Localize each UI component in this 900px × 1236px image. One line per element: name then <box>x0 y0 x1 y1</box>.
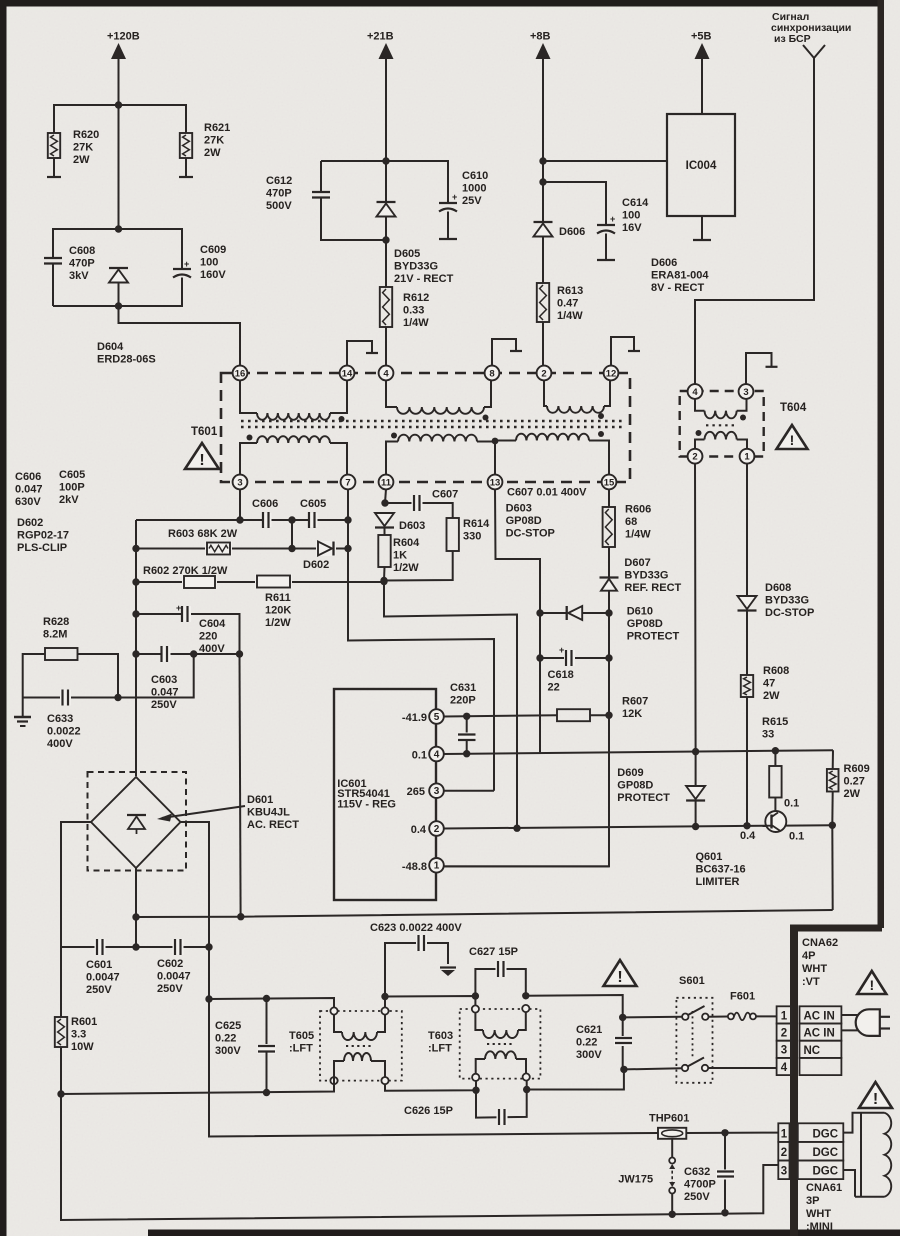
wire AC top line left segment <box>209 998 334 1008</box>
svg-text:2: 2 <box>781 1147 787 1159</box>
node +120B/R620 junction <box>115 101 122 108</box>
T601 pin 15 <box>602 475 617 490</box>
svg-text:250V: 250V <box>86 984 112 996</box>
transformer T601 dashed box <box>221 373 630 482</box>
svg-text:100P: 100P <box>59 481 85 493</box>
svg-text:0.0047: 0.0047 <box>157 970 191 982</box>
svg-text:KBU4JL: KBU4JL <box>247 806 290 818</box>
ground stub above pin 8 <box>492 339 516 366</box>
T603 upper winding <box>475 1013 483 1031</box>
T604 pin 1 <box>740 449 755 464</box>
AC plug <box>841 1014 861 1016</box>
svg-text:2: 2 <box>692 452 697 463</box>
T601 pin 4 <box>379 366 394 381</box>
T601 winding pins 3-7 <box>240 443 257 475</box>
svg-text:LIMITER: LIMITER <box>696 876 740 888</box>
T601 winding pins 4-8 <box>386 380 397 407</box>
svg-text:-48.8: -48.8 <box>402 861 427 873</box>
node D604 bottom junction <box>115 302 122 309</box>
capacitor C618 <box>540 657 609 659</box>
resistor R602 <box>182 575 217 589</box>
svg-text:115V - REG: 115V - REG <box>337 798 396 810</box>
wire R602/R611 line <box>136 581 384 583</box>
antenna input symbol <box>803 45 825 58</box>
svg-text:1/4W: 1/4W <box>403 317 429 329</box>
capacitor C632 <box>724 1133 726 1213</box>
capacitor C621 <box>614 1036 632 1046</box>
transformer T604 dashed box <box>680 391 764 457</box>
svg-text:1000: 1000 <box>462 182 486 194</box>
svg-text:+: + <box>452 192 457 202</box>
svg-text:0.4: 0.4 <box>740 830 756 842</box>
degauss coil <box>843 1113 861 1133</box>
transformer T601 core dots <box>241 420 623 422</box>
svg-text:!: ! <box>617 969 622 986</box>
IC U IC601 box <box>334 689 436 900</box>
jumper JW175 <box>671 1139 673 1158</box>
svg-text:12: 12 <box>606 368 617 379</box>
node winding junction pin13 <box>492 438 499 445</box>
svg-text:+: + <box>176 603 181 613</box>
svg-text:11: 11 <box>381 477 392 488</box>
svg-text:C606: C606 <box>15 471 41 483</box>
wire minus bus up to emitter node <box>831 825 833 910</box>
CNA62 section thick border horizontal <box>790 925 882 932</box>
wire R603/D602 line <box>136 548 348 550</box>
resistor R604 <box>384 528 386 536</box>
svg-text:GP08D: GP08D <box>617 779 653 791</box>
resistor R621 <box>180 133 192 158</box>
transformer T603 dotted box <box>460 1009 541 1079</box>
svg-text:27K: 27K <box>204 134 224 146</box>
wire D607 net vertical <box>444 613 610 866</box>
svg-text:PROTECT: PROTECT <box>627 630 680 642</box>
svg-text:3: 3 <box>781 1166 787 1178</box>
capacitor C602 <box>173 939 184 955</box>
node D605 anode junction <box>382 236 389 243</box>
svg-text:IC004: IC004 <box>686 160 717 172</box>
IC601 pin 3 <box>429 783 444 798</box>
svg-text:3: 3 <box>237 477 242 488</box>
svg-text:C626 15P: C626 15P <box>404 1105 453 1117</box>
svg-text:R613: R613 <box>557 285 583 297</box>
wire AC top line at T605 right <box>385 996 475 1008</box>
svg-text:R604: R604 <box>393 537 420 549</box>
svg-text:!: ! <box>790 432 795 448</box>
svg-text:DC-STOP: DC-STOP <box>506 527 555 539</box>
svg-text:AC IN: AC IN <box>804 1011 835 1023</box>
svg-text:220: 220 <box>199 630 217 642</box>
T601 pin 2 <box>537 366 552 381</box>
svg-text:4: 4 <box>434 749 440 760</box>
svg-text:BYD33G: BYD33G <box>394 260 438 272</box>
svg-text:15: 15 <box>604 477 615 488</box>
T601 pin 16 <box>233 366 248 381</box>
T601 pin 14 <box>340 366 355 381</box>
svg-text::MINI: :MINI <box>806 1221 833 1233</box>
T603 core dots <box>487 1043 515 1045</box>
svg-text:0.0047: 0.0047 <box>86 971 120 983</box>
warning triangle S601 <box>604 960 637 986</box>
svg-text:27K: 27K <box>73 141 93 153</box>
svg-text:250V: 250V <box>151 699 177 711</box>
connector CNA62 <box>777 1006 792 1023</box>
wire +120B branch to T601 pin16 <box>119 306 241 366</box>
resistor R611 <box>255 574 292 588</box>
IC601 pin4 line <box>444 750 834 754</box>
svg-text:D603: D603 <box>399 520 425 532</box>
wire C606/C605 line <box>239 489 241 520</box>
T604 pin 4 <box>688 384 703 399</box>
T601 pin 7 <box>341 475 356 490</box>
T604 core dots <box>706 424 735 426</box>
svg-text:!: ! <box>199 452 204 469</box>
capacitor C607 (snubber) <box>385 503 453 518</box>
svg-text:D606: D606 <box>559 226 585 238</box>
wire +120B vertical <box>118 58 120 229</box>
capacitor C610 <box>386 161 448 202</box>
ground symbol left <box>22 698 24 718</box>
capacitor C625 <box>266 999 268 1047</box>
svg-text:D608: D608 <box>765 582 791 594</box>
svg-text:250V: 250V <box>684 1191 710 1203</box>
svg-text:C612: C612 <box>266 175 292 187</box>
wire C608/C609 top line <box>53 229 182 268</box>
T601 pin 8 <box>485 366 500 381</box>
svg-text:R612: R612 <box>403 292 429 304</box>
svg-text:C607: C607 <box>432 489 458 501</box>
net +120B arrow <box>111 43 126 59</box>
T605 lower winding <box>334 1061 344 1077</box>
svg-text:0.1: 0.1 <box>789 831 804 843</box>
svg-text:BC637-16: BC637-16 <box>696 863 746 875</box>
svg-text:C601: C601 <box>86 959 112 971</box>
svg-text:10W: 10W <box>71 1041 94 1053</box>
svg-text:1: 1 <box>744 452 750 463</box>
diode D608 <box>738 596 757 609</box>
svg-text:C605: C605 <box>300 498 326 510</box>
resistor R612 <box>385 240 387 287</box>
svg-text:300V: 300V <box>576 1049 602 1061</box>
svg-text:+120B: +120B <box>107 31 140 43</box>
warning triangle degauss <box>859 1082 892 1108</box>
svg-text:DC-STOP: DC-STOP <box>765 607 814 619</box>
svg-text::LFT: :LFT <box>289 1042 313 1054</box>
svg-text:100: 100 <box>200 256 218 268</box>
svg-text:C618: C618 <box>548 669 574 681</box>
T601 pin 12 <box>604 366 619 381</box>
page border frame bottom bar <box>148 1230 900 1236</box>
wire AC bottom line left segment <box>61 1077 334 1094</box>
transistor Q601 <box>765 811 786 832</box>
diode D603 <box>375 513 394 526</box>
T605 upper winding <box>334 1015 342 1033</box>
diode D609 <box>686 786 705 799</box>
svg-text:2: 2 <box>781 1028 787 1040</box>
capacitor C608 <box>44 257 62 259</box>
svg-text:R614: R614 <box>463 518 490 530</box>
svg-text:R607: R607 <box>622 696 648 708</box>
wire bottom line to CNA61 pin3 <box>672 1165 778 1214</box>
resistor R601 <box>60 947 62 1017</box>
svg-text:PLS-CLIP: PLS-CLIP <box>17 542 67 554</box>
svg-text:+5B: +5B <box>691 31 712 43</box>
svg-text:0.27: 0.27 <box>844 775 865 787</box>
svg-text:4: 4 <box>692 387 698 398</box>
svg-text:D602: D602 <box>303 559 329 571</box>
svg-text:BYD33G: BYD33G <box>765 594 809 606</box>
svg-text:0.47: 0.47 <box>557 297 578 309</box>
warning triangle CNA62 <box>857 971 886 994</box>
svg-text:470P: 470P <box>266 187 292 199</box>
svg-text:R601: R601 <box>71 1016 97 1028</box>
CNA62 section thick border vertical <box>790 925 798 1236</box>
fuse F601 <box>709 1016 729 1018</box>
svg-text:16: 16 <box>235 368 246 379</box>
svg-text:5: 5 <box>434 712 440 723</box>
svg-text:C610: C610 <box>462 170 488 182</box>
svg-text:D602: D602 <box>17 517 43 529</box>
svg-text:3: 3 <box>781 1045 787 1057</box>
wire bridge AC right <box>181 822 659 1137</box>
svg-text:400V: 400V <box>47 738 73 750</box>
T601 pin 3 <box>233 475 248 490</box>
svg-text:0.22: 0.22 <box>576 1036 597 1048</box>
node D604 top junction <box>115 225 122 232</box>
wire +21B vertical <box>385 58 387 202</box>
svg-text:2W: 2W <box>763 690 780 702</box>
wire AC line y947 <box>61 946 209 948</box>
wire switch lower line <box>624 1068 682 1069</box>
svg-text:!: ! <box>869 977 874 993</box>
wire minus bus long <box>136 910 833 917</box>
svg-text:C632: C632 <box>684 1166 710 1178</box>
wire sync to T604 pin4 <box>695 58 814 384</box>
svg-text:!: ! <box>873 1091 878 1108</box>
svg-text:C623 0.0022 400V: C623 0.0022 400V <box>370 922 462 934</box>
T604 winding pins 2-1 <box>695 440 705 449</box>
svg-text:1/4W: 1/4W <box>625 528 651 540</box>
T604 pin3 stub <box>746 353 772 384</box>
capacitor C606 <box>263 513 272 527</box>
svg-text:D610: D610 <box>627 606 653 618</box>
svg-text:14: 14 <box>342 368 353 379</box>
svg-text:PROTECT: PROTECT <box>617 792 670 804</box>
svg-text:R609: R609 <box>844 763 870 775</box>
svg-text:500V: 500V <box>266 200 292 212</box>
capacitor C626 <box>476 1090 527 1118</box>
resistor R609 <box>832 750 834 769</box>
svg-text:C614: C614 <box>622 197 649 209</box>
switch S601 upper contact <box>682 1014 688 1020</box>
IC601 pin 5 <box>429 709 444 724</box>
svg-text:630V: 630V <box>15 496 41 508</box>
node R604/R614/R611 junction <box>380 577 387 584</box>
svg-text:R602 270K 1/2W: R602 270K 1/2W <box>143 565 228 577</box>
svg-text:+21B: +21B <box>367 31 394 43</box>
ground symbol C623 <box>440 966 456 968</box>
resistor R620 <box>48 133 60 158</box>
T604 pin 3 <box>739 384 754 399</box>
svg-text:из БСР: из БСР <box>774 33 811 45</box>
svg-text:R615: R615 <box>762 716 788 728</box>
svg-text:+: + <box>559 645 564 655</box>
page border frame top bar <box>0 0 884 7</box>
T601 winding pins 11-13 <box>386 442 398 476</box>
svg-text:4: 4 <box>383 368 389 379</box>
wire THP601 to CNA61 pin1 <box>686 1132 778 1134</box>
T601 pin 13 <box>488 475 503 490</box>
diode D610 <box>540 612 567 614</box>
svg-text:CNA61: CNA61 <box>806 1182 842 1194</box>
svg-text:2W: 2W <box>204 147 221 159</box>
svg-text:ERA81-004: ERA81-004 <box>651 269 709 281</box>
resistor R628 <box>45 648 78 660</box>
svg-text:C631: C631 <box>450 682 476 694</box>
svg-text:1K: 1K <box>393 549 407 561</box>
svg-text:R611: R611 <box>265 592 291 604</box>
connector CNA61 <box>778 1123 789 1142</box>
resistor R613 <box>537 283 549 322</box>
svg-text:3: 3 <box>434 786 440 797</box>
page border frame right bar <box>878 0 885 928</box>
svg-text:12K: 12K <box>622 708 642 720</box>
svg-text:AC IN: AC IN <box>804 1028 835 1040</box>
capacitor C601 <box>95 939 106 955</box>
wire snubber bus vertical <box>135 520 137 776</box>
svg-text::VT: :VT <box>802 976 820 988</box>
wire switch lower to CNA62 pin4 <box>708 1067 776 1069</box>
wire pin13 net <box>495 489 540 752</box>
svg-text:1/4W: 1/4W <box>557 310 583 322</box>
svg-text:160V: 160V <box>200 269 226 281</box>
wire +8B to C614 <box>543 182 606 224</box>
T604 pin 2 <box>688 449 703 464</box>
switch S601 dotted box <box>676 998 712 1083</box>
svg-text:D609: D609 <box>617 767 643 779</box>
svg-text:D603: D603 <box>506 503 532 515</box>
IC601 pin1 line <box>444 865 610 867</box>
capacitor C605 <box>309 513 318 527</box>
wire C633 line <box>23 654 194 698</box>
wire T604 pin2 net down <box>694 464 697 786</box>
svg-text:REF. RECT: REF. RECT <box>624 582 681 594</box>
svg-text:0.0022: 0.0022 <box>47 725 81 737</box>
svg-text:DGC: DGC <box>813 1128 839 1140</box>
diode D606 <box>534 221 553 223</box>
svg-text:2: 2 <box>541 368 546 379</box>
svg-text:CNA62: CNA62 <box>802 937 838 949</box>
T601 pin 11 <box>379 475 394 490</box>
T605 pins <box>330 1007 337 1014</box>
svg-text:R608: R608 <box>763 665 789 677</box>
svg-text:WHT: WHT <box>802 963 827 975</box>
svg-text:C604: C604 <box>199 618 226 630</box>
wire AC top right segment <box>526 995 623 1069</box>
svg-text:13: 13 <box>490 477 501 488</box>
ground stub above pin 14 <box>347 341 372 366</box>
svg-text:T603: T603 <box>428 1030 453 1042</box>
bridge D601 dashed box <box>88 772 187 871</box>
svg-text:1: 1 <box>781 1128 788 1140</box>
svg-text:1: 1 <box>434 861 440 872</box>
svg-text:C608: C608 <box>69 245 95 257</box>
svg-text:GP08D: GP08D <box>627 618 663 630</box>
svg-text:-41.9: -41.9 <box>402 712 427 724</box>
wire R620/R621 top rail <box>54 105 186 133</box>
svg-text:R628: R628 <box>43 616 69 628</box>
svg-text:16V: 16V <box>622 222 642 234</box>
bridge D601 diamond <box>91 777 181 868</box>
svg-text:120K: 120K <box>265 604 291 616</box>
svg-text:25V: 25V <box>462 195 482 207</box>
svg-text:1: 1 <box>781 1010 788 1022</box>
wire AC bottom line mid segment <box>385 1081 476 1091</box>
wire T604 pin1 net down <box>746 464 748 596</box>
svg-text:265: 265 <box>407 786 425 798</box>
svg-text:0.4: 0.4 <box>411 824 427 836</box>
svg-text:T604: T604 <box>780 402 807 414</box>
svg-text:C625: C625 <box>215 1020 241 1032</box>
wire emitter to R609 node <box>786 824 832 826</box>
T603 pins <box>472 1005 479 1012</box>
wire pin11 lead <box>385 489 386 503</box>
IC601 pin2 line <box>444 826 767 829</box>
svg-text:R603 68K 2W: R603 68K 2W <box>168 528 238 540</box>
svg-text:DGC: DGC <box>813 1147 839 1159</box>
svg-text:2W: 2W <box>73 154 90 166</box>
svg-text:NC: NC <box>804 1045 821 1057</box>
T603 lower winding <box>476 1059 485 1075</box>
T601 winding pins 2-12 <box>544 380 547 406</box>
wire C604 net down to minus bus <box>240 654 241 917</box>
svg-text:C607 0.01 400V: C607 0.01 400V <box>507 487 587 499</box>
bridge D601 inner diode <box>127 814 146 816</box>
net +21B arrow <box>379 43 394 59</box>
svg-text:1/2W: 1/2W <box>393 562 419 574</box>
diode D607 <box>608 547 610 578</box>
svg-text:0.33: 0.33 <box>403 304 424 316</box>
capacitor C627 <box>475 969 525 996</box>
IC601 pin 4 <box>429 747 444 762</box>
svg-text:470P: 470P <box>69 257 95 269</box>
wire +8B vertical <box>542 58 544 222</box>
thermistor THP601 <box>658 1128 686 1139</box>
svg-text:RGP02-17: RGP02-17 <box>17 529 69 541</box>
svg-text:+: + <box>610 214 615 224</box>
svg-text:21V - RECT: 21V - RECT <box>394 273 454 285</box>
net +5B arrow <box>695 43 710 59</box>
wire pin7 net to IC601 pin3 <box>348 489 494 791</box>
IC U IC004 <box>667 114 735 216</box>
svg-text:C605: C605 <box>59 469 85 481</box>
svg-text:Q601: Q601 <box>696 851 723 863</box>
svg-text:C633: C633 <box>47 713 73 725</box>
svg-text:S601: S601 <box>679 975 705 987</box>
resistor R608 <box>741 675 753 697</box>
svg-text:100: 100 <box>622 209 640 221</box>
svg-text:1/2W: 1/2W <box>265 617 291 629</box>
IC601 pin 2 <box>429 821 444 836</box>
svg-text:T601: T601 <box>191 426 218 438</box>
wire C603 line <box>136 653 240 655</box>
switch S601 lower contact <box>682 1065 688 1071</box>
svg-text:3.3: 3.3 <box>71 1028 86 1040</box>
svg-text:0.1: 0.1 <box>784 798 799 810</box>
svg-text:C627 15P: C627 15P <box>469 946 518 958</box>
svg-text::LFT: :LFT <box>428 1042 452 1054</box>
wire AC bottom line right segment <box>526 1081 528 1090</box>
